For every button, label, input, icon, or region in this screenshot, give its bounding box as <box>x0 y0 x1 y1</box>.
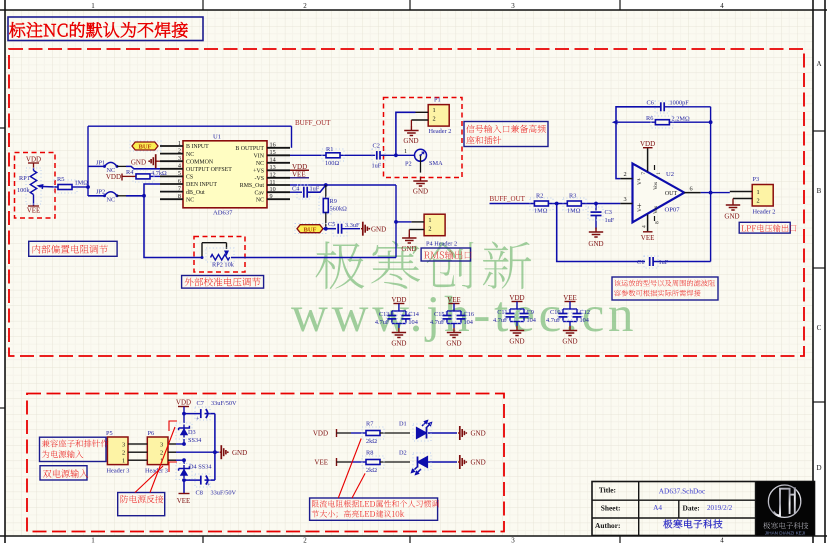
svg-text:3: 3 <box>160 441 163 448</box>
resistor R6 2.2M <box>646 115 711 128</box>
text note: RMS output port <box>421 248 472 261</box>
svg-text:GND: GND <box>391 340 406 348</box>
connector P2 SMA <box>404 148 443 173</box>
svg-text:C14: C14 <box>408 311 419 318</box>
svg-text:16: 16 <box>270 142 276 149</box>
svg-text:C3: C3 <box>605 209 612 216</box>
svg-text:C7: C7 <box>197 400 204 407</box>
svg-text:R8: R8 <box>366 450 373 457</box>
power port GND (P4 pin2) <box>401 230 416 254</box>
svg-text:3: 3 <box>122 441 125 448</box>
svg-text:1uF: 1uF <box>605 217 615 224</box>
svg-text:6: 6 <box>690 186 693 193</box>
port BUF (dB buffer input) <box>295 224 336 234</box>
svg-text:V-: V- <box>637 207 643 212</box>
svg-text:COMMON: COMMON <box>186 159 214 165</box>
capacitor C8 33uF/50V <box>184 452 236 496</box>
svg-text:Author:: Author: <box>595 521 620 530</box>
diode D4 SS34 <box>176 460 212 482</box>
svg-text:C11: C11 <box>497 309 507 316</box>
wire feedback right riser <box>709 107 713 262</box>
svg-text:2: 2 <box>303 2 307 10</box>
svg-text:C4: C4 <box>292 185 300 192</box>
svg-text:R1: R1 <box>326 146 333 153</box>
svg-text:Cav: Cav <box>255 190 265 196</box>
power port VEE (LED row 2) <box>314 458 351 467</box>
svg-text:1: 1 <box>404 148 407 155</box>
svg-text:Title:: Title: <box>599 485 616 494</box>
power port VEE (RP1 bottom) <box>27 206 41 215</box>
svg-text:C12: C12 <box>580 309 591 316</box>
svg-text:7: 7 <box>178 185 181 192</box>
svg-text:JP2: JP2 <box>96 189 105 196</box>
svg-text:C2: C2 <box>373 143 380 150</box>
port BUF (pin1) <box>130 141 161 151</box>
svg-text:GND: GND <box>413 188 428 196</box>
svg-text:Vos: Vos <box>653 182 659 190</box>
svg-text:dB_Out: dB_Out <box>186 190 205 196</box>
svg-text:C9: C9 <box>527 309 534 316</box>
power port GND (pin3 COMMON) <box>131 154 160 168</box>
watermark text 极寒创新 <box>316 241 532 289</box>
svg-text:1: 1 <box>122 458 125 465</box>
svg-text:104: 104 <box>408 319 418 326</box>
power port VDD (power input) <box>176 399 191 414</box>
svg-text:2: 2 <box>122 450 125 457</box>
svg-text:1uF: 1uF <box>310 185 320 192</box>
svg-text:GND: GND <box>471 459 486 467</box>
svg-text:13: 13 <box>270 164 276 171</box>
svg-text:SS34: SS34 <box>188 437 202 444</box>
svg-text:1: 1 <box>428 217 431 224</box>
svg-text:4: 4 <box>642 225 648 228</box>
svg-text:7: 7 <box>641 172 647 175</box>
svg-text:GND: GND <box>588 240 603 248</box>
svg-text:1: 1 <box>433 107 436 114</box>
svg-text:AD637: AD637 <box>213 210 233 217</box>
svg-text:4.7uF: 4.7uF <box>430 319 445 326</box>
power port VEE (power input) <box>177 480 191 505</box>
svg-text:P3: P3 <box>753 176 760 183</box>
text note: LED resistor sizing <box>310 498 439 520</box>
svg-text:560kΩ: 560kΩ <box>330 206 348 213</box>
svg-text:1MΩ: 1MΩ <box>567 208 581 215</box>
svg-text:1: 1 <box>91 2 95 10</box>
svg-text:BUF: BUF <box>139 144 152 151</box>
svg-text:R2: R2 <box>536 193 543 200</box>
capacitor C7 33uF/50V <box>184 400 237 452</box>
svg-text:10: 10 <box>270 186 276 193</box>
power port VDD (U2 pin7) <box>640 140 655 148</box>
svg-text:3: 3 <box>511 2 515 10</box>
capacitor C15 4.7uF + capacitor C16 104 (VEE decoupling) <box>430 296 474 348</box>
svg-text:2: 2 <box>428 226 431 233</box>
svg-text:VEE: VEE <box>177 497 191 505</box>
svg-text:2kΩ: 2kΩ <box>366 438 377 445</box>
svg-text:C13: C13 <box>379 311 390 318</box>
svg-text:15: 15 <box>270 149 276 156</box>
svg-text:BUFF_OUT: BUFF_OUT <box>295 119 331 127</box>
svg-text:C8: C8 <box>196 490 203 497</box>
wire P6 pin3 to VDD rail <box>176 442 186 446</box>
watermark text www.jh-tec.cn <box>291 287 637 343</box>
svg-text:NC: NC <box>256 197 264 203</box>
text note: NC default not soldered <box>8 17 203 41</box>
svg-text:2: 2 <box>433 116 436 123</box>
capacitor C3 1uF <box>588 204 615 230</box>
svg-text:1: 1 <box>91 537 95 543</box>
text note: LPF output port <box>739 222 796 233</box>
svg-text:P4 Header 2: P4 Header 2 <box>426 241 457 248</box>
svg-text:DEN INPUT: DEN INPUT <box>186 182 217 188</box>
svg-text:Header 3: Header 3 <box>145 468 168 475</box>
text note: dual power input <box>40 466 88 480</box>
svg-text:GND: GND <box>446 340 461 348</box>
diode D3 SS34 <box>176 412 202 444</box>
text note: internal offset adjust <box>29 241 117 256</box>
text note: external calibration adjust <box>182 276 264 289</box>
capacitor C10 4.7uF + capacitor C12 104 (VEE decoupling) <box>546 294 590 346</box>
svg-text:OP07: OP07 <box>665 207 681 214</box>
wire RMS net bottom run <box>231 185 398 258</box>
svg-text:1: 1 <box>656 172 662 175</box>
capacitor C5 3.3uF <box>328 221 360 236</box>
svg-text:OUT: OUT <box>665 191 678 197</box>
svg-text:GND: GND <box>232 449 247 457</box>
svg-text:1: 1 <box>757 189 760 196</box>
svg-text:4: 4 <box>720 2 724 10</box>
svg-text:U2: U2 <box>666 171 674 178</box>
svg-text:2: 2 <box>303 537 307 543</box>
svg-text:-VS: -VS <box>255 176 265 182</box>
LED D1 <box>399 421 457 442</box>
svg-text:BUF: BUF <box>304 226 317 233</box>
power port VDD (RP1 top) <box>26 156 41 169</box>
svg-text:2019/2/2: 2019/2/2 <box>707 504 733 512</box>
svg-text:GND: GND <box>403 137 418 145</box>
svg-text:11: 11 <box>270 179 276 186</box>
svg-text:D2: D2 <box>399 450 407 457</box>
svg-text:C15: C15 <box>434 311 445 318</box>
power port VDD (pin13 +VS) <box>290 163 309 171</box>
svg-text:BUFF_OUT: BUFF_OUT <box>490 195 526 203</box>
svg-text:SMA: SMA <box>429 160 443 167</box>
wire P6 pin1 to VEE rail <box>176 458 186 462</box>
svg-text:Header 2: Header 2 <box>753 209 776 216</box>
svg-text:P5: P5 <box>106 430 113 437</box>
svg-text:GND: GND <box>509 338 524 346</box>
svg-text:100Ω: 100Ω <box>325 160 339 167</box>
power port VDD (LED row 1) <box>313 429 351 438</box>
capacitor C1 1uF <box>637 256 711 268</box>
svg-text:33uF/50V: 33uF/50V <box>211 490 237 497</box>
svg-text:4: 4 <box>720 537 724 543</box>
wire RMS_Out (pin11) to P4 riser <box>290 183 396 187</box>
svg-text:1000pF: 1000pF <box>670 100 690 107</box>
power port GND (P3 pin2) <box>724 199 740 221</box>
svg-text:D3: D3 <box>188 429 196 436</box>
power port GND (P2 SMA) <box>413 177 428 196</box>
resistor R2 1M <box>490 193 567 215</box>
svg-text:C1: C1 <box>637 259 644 266</box>
svg-text:JP1: JP1 <box>96 160 105 167</box>
resistor R7 2k <box>351 421 410 446</box>
svg-text:RP1: RP1 <box>19 175 30 182</box>
wire BUFF_OUT top run <box>88 126 292 148</box>
svg-text:D: D <box>816 464 821 472</box>
svg-text:Date:: Date: <box>683 504 700 513</box>
capacitor C6 1000pF <box>647 100 711 114</box>
power port GND (C3) <box>588 228 603 248</box>
svg-text:100k: 100k <box>17 187 30 194</box>
resistor R9 560k <box>319 185 347 229</box>
svg-text:P2: P2 <box>405 161 412 168</box>
svg-text:VDD: VDD <box>176 399 191 407</box>
svg-text:GND: GND <box>371 226 386 234</box>
connector P5 Header 3 <box>106 430 139 475</box>
svg-text:B: B <box>817 187 822 195</box>
resistor R4 4.7k with VDD port <box>106 169 167 182</box>
svg-text:RMS_Out: RMS_Out <box>240 183 265 189</box>
wire P1 pin1 to SMA node <box>396 112 416 155</box>
svg-text:NC: NC <box>186 197 194 203</box>
resistor R3 1M <box>563 193 620 215</box>
svg-text:VEE: VEE <box>641 234 655 242</box>
potentiometer RP2 10k (rheostat) <box>201 243 235 269</box>
svg-text:1uF: 1uF <box>659 259 669 266</box>
region box: main circuit (red dashed) <box>9 49 804 356</box>
jumper JP1 <box>88 160 126 174</box>
svg-text:C5: C5 <box>328 221 335 228</box>
title block <box>592 482 815 536</box>
svg-text:VDD: VDD <box>26 156 41 164</box>
connector P4 Header 2 <box>396 214 457 247</box>
op-amp U1 AD637 (RMS-DC converter) <box>160 134 290 217</box>
svg-text:VDD: VDD <box>106 173 121 181</box>
resistor R5 1M <box>54 176 88 193</box>
wire P6 pin2 to GND <box>176 450 219 454</box>
connector P6 Header 3 <box>139 430 176 475</box>
svg-text:VDD: VDD <box>313 430 328 438</box>
logo JH <box>763 485 808 535</box>
resistor R1 100 (VIN) <box>290 146 375 167</box>
svg-text:AD637.SchDoc: AD637.SchDoc <box>659 487 706 496</box>
svg-text:C6: C6 <box>647 100 654 107</box>
svg-text:VEE: VEE <box>27 207 41 215</box>
svg-text:R7: R7 <box>366 421 373 428</box>
svg-text:1MΩ: 1MΩ <box>534 208 548 215</box>
svg-text:C: C <box>817 324 822 332</box>
wire net RP1/offset: vertical junction riser <box>86 126 90 196</box>
svg-text:5: 5 <box>178 170 181 177</box>
svg-text:4.7uF: 4.7uF <box>493 317 508 324</box>
svg-text:2: 2 <box>178 147 181 154</box>
svg-text:GND: GND <box>724 213 739 221</box>
svg-text:GND: GND <box>562 338 577 346</box>
svg-text:8: 8 <box>178 193 181 200</box>
capacitor C13 4.7uF + capacitor C14 104 (VDD decoupling) <box>375 296 420 348</box>
wire C1 feedback bottom <box>557 204 645 262</box>
potentiometer RP1 100k <box>17 168 56 206</box>
svg-text:2: 2 <box>160 450 163 457</box>
leader lines to D3 D4 <box>135 421 177 493</box>
resistor R8 2k <box>351 450 410 475</box>
power port GND (C5) <box>361 222 386 236</box>
svg-text:4.7kΩ: 4.7kΩ <box>151 170 167 177</box>
svg-text:JIHAN DIANZI KEJI: JIHAN DIANZI KEJI <box>765 530 806 535</box>
svg-text:VIN: VIN <box>254 154 265 160</box>
svg-text:1: 1 <box>178 140 181 147</box>
svg-text:P6: P6 <box>148 430 155 437</box>
svg-text:D1: D1 <box>399 421 407 428</box>
svg-text:2kΩ: 2kΩ <box>366 467 377 474</box>
svg-text:GND: GND <box>131 159 146 167</box>
connector P3 Header 2 <box>730 176 776 216</box>
region box: RP1 internal offset adjust (red dashed) <box>15 153 56 219</box>
wire JP1 to pin4 <box>126 166 160 168</box>
svg-text:NC: NC <box>186 152 194 158</box>
svg-text:4.7uF: 4.7uF <box>375 319 390 326</box>
svg-text:8: 8 <box>655 221 661 224</box>
svg-text:1uF: 1uF <box>372 163 382 170</box>
power port GND (D1) <box>458 426 486 440</box>
svg-text:GND: GND <box>401 245 416 253</box>
svg-text:CS: CS <box>186 175 193 181</box>
capacitor C2 1uF <box>372 143 416 170</box>
wire DEN INPUT (pin6) down <box>144 184 160 196</box>
svg-text:2: 2 <box>624 171 627 178</box>
LED D2 (reversed) <box>399 450 457 475</box>
svg-text:B OUTPUT: B OUTPUT <box>235 146 264 152</box>
svg-text:NC: NC <box>256 161 264 167</box>
power port GND (P6 pin2) <box>220 445 248 459</box>
svg-text:4.7uF: 4.7uF <box>546 317 561 324</box>
svg-text:R4: R4 <box>126 169 134 176</box>
svg-text:R6: R6 <box>646 115 653 122</box>
power port GND (P1 pin2) <box>403 120 418 145</box>
svg-text:9: 9 <box>270 193 273 200</box>
power port VEE (pin12 -VS) <box>290 171 309 179</box>
svg-text:1MΩ: 1MΩ <box>75 180 89 187</box>
svg-text:V+: V+ <box>637 178 643 185</box>
svg-text:12: 12 <box>270 172 276 179</box>
svg-text:3: 3 <box>511 537 515 543</box>
svg-text:2: 2 <box>757 197 760 204</box>
svg-text:33uF/50V: 33uF/50V <box>211 400 237 407</box>
svg-text:OUTPUT OFFSET: OUTPUT OFFSET <box>186 167 232 173</box>
svg-text:Header 2: Header 2 <box>429 128 452 135</box>
svg-text:6: 6 <box>178 178 181 185</box>
wire U2 output to P3 <box>701 192 730 194</box>
svg-text:4: 4 <box>178 163 181 170</box>
svg-text:R9: R9 <box>330 198 337 205</box>
power port GND (D2) <box>458 455 486 469</box>
svg-text:VEE: VEE <box>314 459 328 467</box>
svg-text:RP2 10k: RP2 10k <box>212 262 235 269</box>
connector P1 Header 2 <box>411 97 451 135</box>
svg-text:3: 3 <box>624 196 627 203</box>
wire R6 branch <box>612 120 657 125</box>
wire feedback left riser <box>616 107 661 179</box>
region box: RP2 external cal (red dashed) <box>194 237 245 273</box>
svg-text:U1: U1 <box>213 134 221 141</box>
svg-text:GND: GND <box>471 430 486 438</box>
svg-text:B INPUT: B INPUT <box>186 144 209 150</box>
text note: header compatible power input <box>40 437 109 461</box>
text note: signal input port <box>464 122 548 147</box>
region box: power input section (red dashed) <box>27 394 504 532</box>
capacitor C4 1uF (Cav pin10) <box>290 185 326 199</box>
svg-text:14: 14 <box>270 157 276 164</box>
svg-text:104: 104 <box>580 317 590 324</box>
region box: signal input connectors (red dashed) <box>384 98 463 178</box>
svg-text:3.3uF: 3.3uF <box>345 222 360 229</box>
svg-text:C16: C16 <box>464 311 475 318</box>
svg-text:A: A <box>816 60 821 68</box>
svg-text:104: 104 <box>527 317 537 324</box>
svg-text:A4: A4 <box>653 503 662 512</box>
svg-text:R5: R5 <box>57 176 64 183</box>
svg-text:NC: NC <box>107 197 116 204</box>
svg-text:VDD: VDD <box>640 140 655 148</box>
svg-text:2.2MΩ: 2.2MΩ <box>672 115 690 122</box>
power port VEE (U2 pin4) <box>641 232 655 242</box>
svg-text:R3: R3 <box>569 193 576 200</box>
svg-text:104: 104 <box>464 319 474 326</box>
capacitor C11 4.7uF + capacitor C9 104 (VDD decoupling) <box>493 294 537 346</box>
svg-text:Header 3: Header 3 <box>107 468 130 475</box>
wire JP2/DEN to RP2 row <box>126 194 202 258</box>
svg-text:D4 SS34: D4 SS34 <box>189 464 212 471</box>
svg-text:Sheet:: Sheet: <box>601 503 621 512</box>
svg-text:+VS: +VS <box>253 169 264 175</box>
leader lines to R7 R8 <box>338 439 365 499</box>
svg-text:C10: C10 <box>550 309 561 316</box>
svg-text:P1: P1 <box>434 97 441 104</box>
text note: reverse polarity protection <box>118 493 165 516</box>
svg-text:Vos: Vos <box>653 206 659 214</box>
op-amp U2 OP07 <box>620 148 700 232</box>
jumper JP2 <box>88 189 126 204</box>
svg-text:3: 3 <box>178 155 181 162</box>
text note: opamp type / filter parts <box>612 277 718 300</box>
